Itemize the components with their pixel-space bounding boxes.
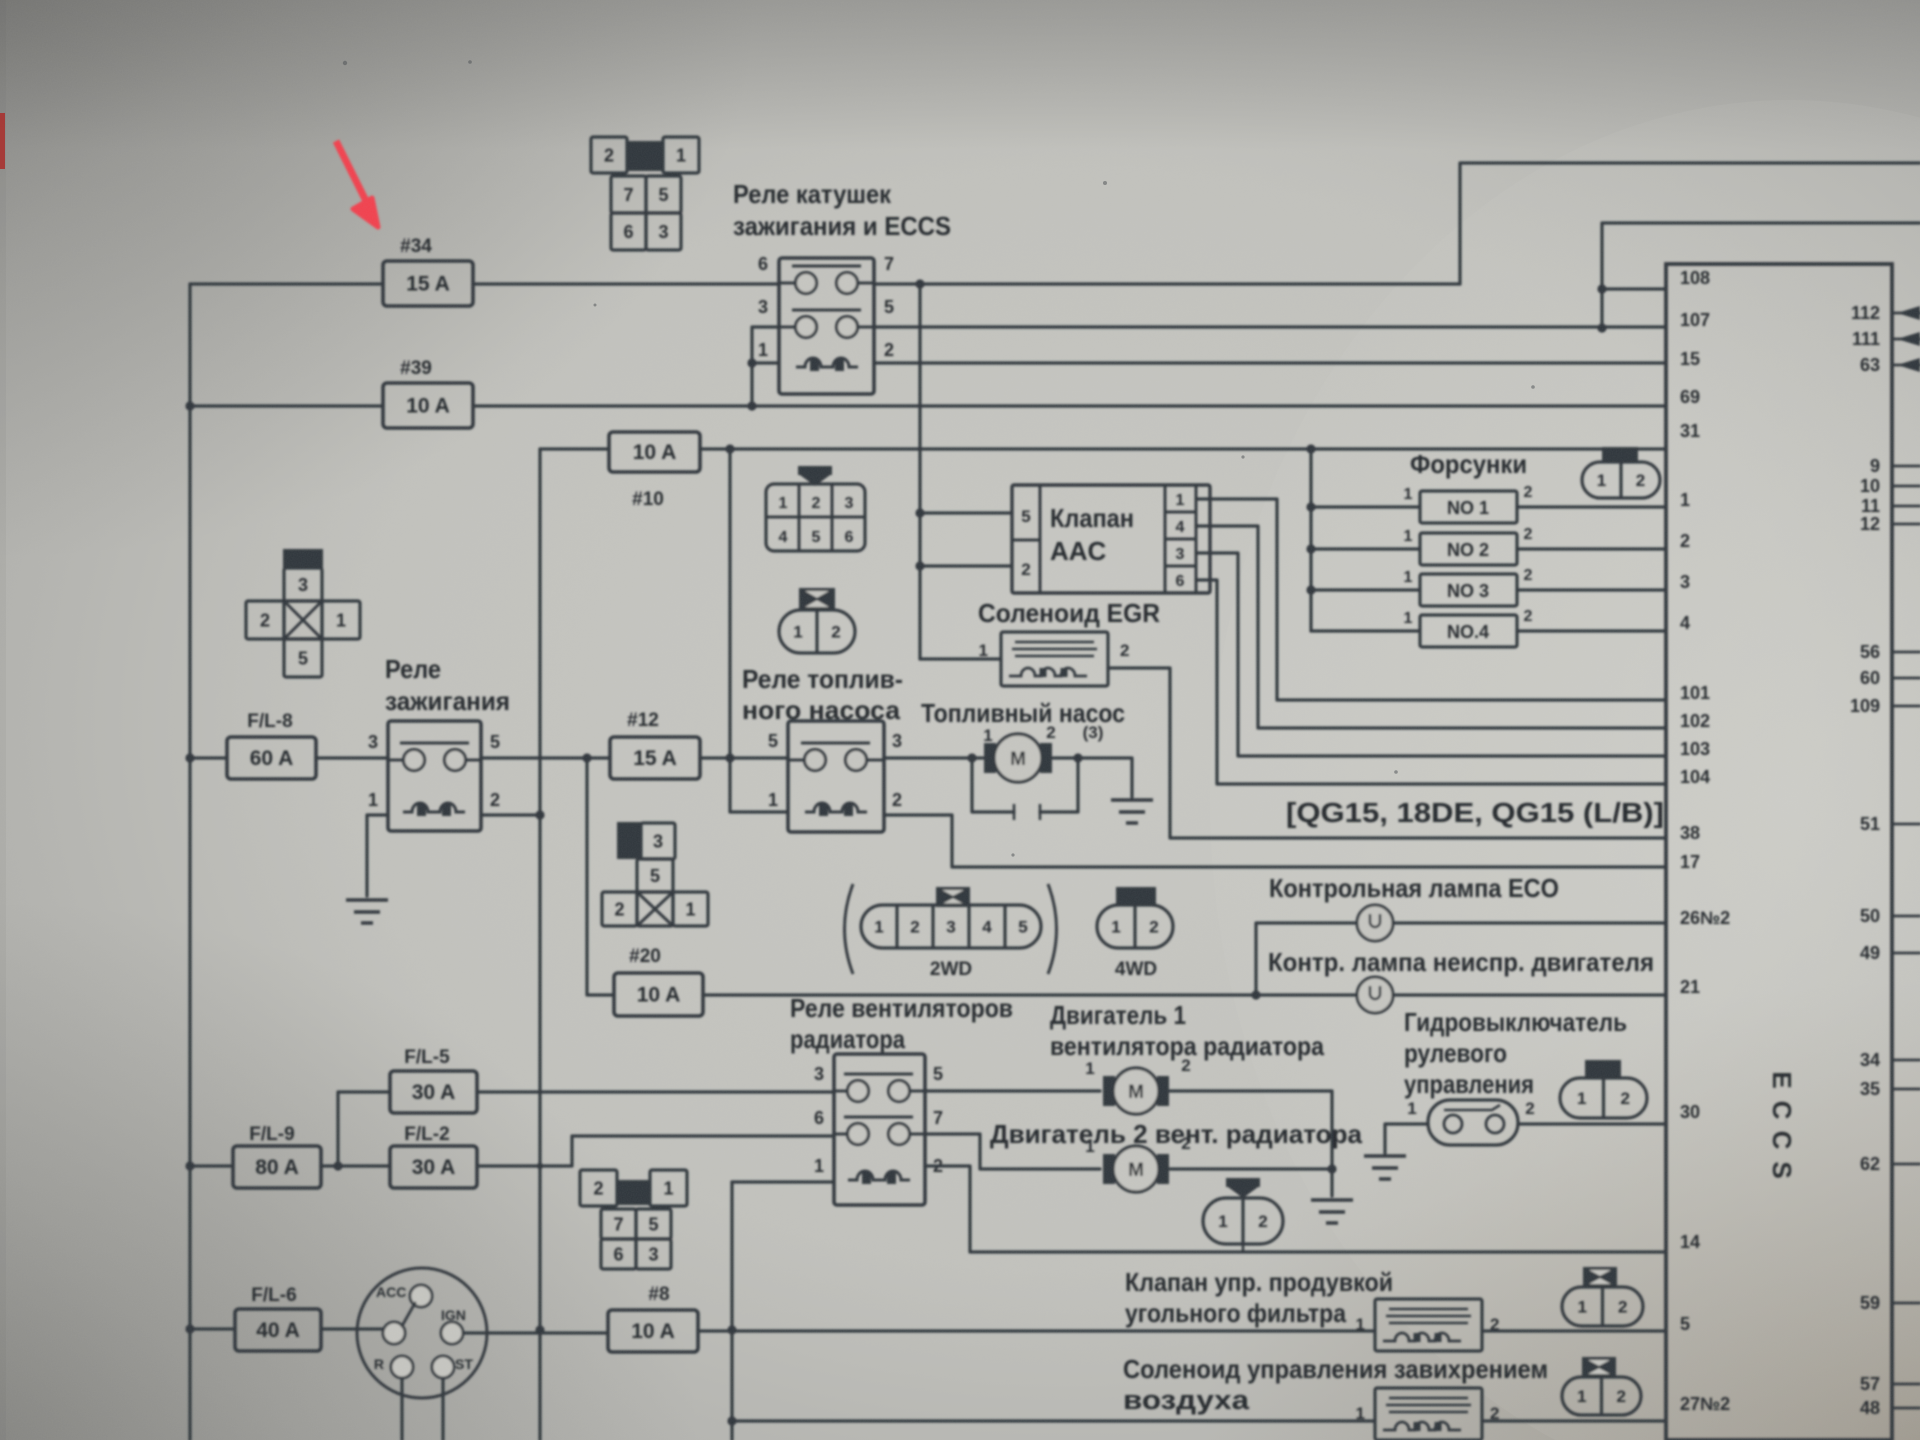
fuse #34 15A — [383, 261, 473, 306]
wire #39 fuse output to ECU pin 69 — [473, 404, 1666, 407]
wire AAC pin 3 to ECU pin 103 — [1196, 553, 1666, 756]
wire switched bus from ignition relay pin 2 — [538, 449, 541, 1440]
wire ECU pin 59 stub — [1892, 1302, 1920, 1305]
connector #8 2-1/7-5/6-3 — [580, 1170, 617, 1206]
wire #20 output through lamps to ECU pin 21 — [703, 993, 1357, 996]
node AAC pin5 junction — [915, 508, 924, 517]
connector injectors oval 1-2 — [1602, 447, 1638, 462]
fusible link F/L-6 40A — [235, 1309, 321, 1351]
wire #8 circuit vertical down to bottom — [730, 1182, 733, 1440]
fusible link F/L-5 30A — [390, 1071, 477, 1113]
wire NO1 output to ECU pin 1 — [1517, 505, 1666, 508]
connector oval 1-2 fan circuit — [1226, 1178, 1260, 1187]
wire branch up to F/L-5 — [338, 1092, 390, 1166]
node pump bypass junction left — [967, 753, 976, 762]
wire down to swirl valve feed — [732, 1419, 1375, 1422]
wire F/L-2 output to fan relay pin 6 — [477, 1136, 834, 1166]
wire #34 fuse output to ignition-coil relay pin 6 — [473, 282, 779, 285]
wire ST terminal down — [441, 1378, 444, 1440]
lamp check engine — [1357, 977, 1393, 1013]
red annotation arrow — [336, 141, 366, 201]
connector 6pin 1-2-3/4-5-6 — [798, 466, 832, 475]
wire ECU pin 48 stub — [1892, 1407, 1920, 1410]
wire ignition relay pin 1 to ground — [367, 815, 388, 896]
node junction #20 branch — [582, 753, 591, 762]
connector oval 1-2 near fuel pump relay — [799, 588, 835, 610]
wire to ECU pin 108 — [1602, 287, 1666, 290]
dust specks — [343, 60, 1535, 856]
node battery feed junction F/L-6 — [185, 1324, 194, 1333]
wire F/L-6 output to ignition switch — [321, 1327, 384, 1330]
wire motor 1 return to ground junction — [1170, 1091, 1332, 1196]
node crossing blob on switched bus — [537, 1163, 543, 1169]
connector oval 1-2 purge valve — [1583, 1267, 1617, 1287]
solenoid EGR — [1001, 632, 1108, 686]
wire ECU pin 34 stub — [1892, 1059, 1920, 1062]
wire NO4 output to ECU pin 4 — [1517, 629, 1666, 632]
ground fan motors — [1311, 1200, 1353, 1223]
injector NO 1 — [1420, 491, 1517, 523]
wire R terminal down — [400, 1378, 403, 1440]
pressure switch power steering — [1428, 1100, 1518, 1145]
wire ECU pin 35 stub — [1892, 1088, 1920, 1091]
wire F/L-6 input — [190, 1327, 235, 1330]
fusible link F/L-9 80A — [233, 1146, 321, 1188]
node junction at ECU pin 108 line — [1597, 284, 1606, 293]
connector 4WD 1-2 — [1116, 887, 1156, 905]
ground fuel pump — [1111, 800, 1153, 823]
wire AAC pin 4 to ECU pin 102 — [1196, 526, 1666, 728]
node junction injector feed — [1306, 444, 1315, 453]
wire left supply bus vertical — [188, 284, 191, 1440]
node AAC pin2 junction — [915, 561, 924, 570]
wire NO3 output to ECU pin 3 — [1517, 588, 1666, 591]
wire injector common feed vertical — [1309, 449, 1312, 631]
fuse #20 10A — [614, 973, 703, 1016]
wire ECU pin 49 stub — [1892, 952, 1920, 955]
node junction AAC supply branch — [915, 279, 924, 288]
wire step up to top right exit — [1460, 163, 1920, 284]
node junction at ECU pin 107 line — [1597, 323, 1606, 332]
wire swirl valve to ECU pin 27N2 — [1482, 1419, 1666, 1422]
wire to AAC pin 2 — [920, 564, 1012, 567]
wire pump output to ground — [1053, 758, 1132, 797]
connector cross 2-3-5-1 #20 — [617, 822, 641, 859]
injector NO 2 — [1420, 533, 1517, 565]
relay radiator fans — [834, 1054, 925, 1205]
arrowhead pin 63 — [1897, 358, 1920, 372]
node junction relay coil pins 1-3 — [747, 401, 756, 410]
connector above ignition-coil relay 2-1/7-5/6-3 — [591, 137, 627, 173]
wire to AAC pin 5 — [920, 511, 1012, 514]
solenoid air swirl control — [1375, 1388, 1482, 1440]
switch ignition (key switch) — [357, 1268, 487, 1398]
wire #10 fuse input — [540, 447, 609, 450]
wire feed NO1 — [1311, 505, 1420, 508]
node pin1 tie junction — [747, 358, 756, 367]
wire ECU pin 50 stub — [1892, 915, 1920, 918]
wire ignition switch IGN output to #8 fuse — [463, 1331, 608, 1334]
node junction swirl valve feed — [727, 1416, 736, 1425]
fusible link F/L-8 60A — [227, 737, 316, 779]
fuse #10 10A — [609, 432, 700, 472]
wire fan relay pin 7 to motor 2 — [925, 1134, 1100, 1169]
node junction #10 bus — [725, 444, 734, 453]
wire branch up to second top right exit — [1602, 223, 1920, 328]
wire #8 output to purge valve — [698, 1329, 1375, 1332]
wire ECU pin 10 stub — [1892, 485, 1920, 488]
node battery feed junction #39 — [185, 401, 194, 410]
node battery feed junction F/L-8 — [185, 753, 194, 762]
node lamp branch junction — [1251, 990, 1260, 999]
relay ignition coils and ECCS — [779, 258, 874, 394]
node fan grounds junction — [1327, 1164, 1336, 1173]
wire NO2 output to ECU pin 2 — [1517, 547, 1666, 550]
fuse #39 10A — [383, 383, 473, 428]
node injector NO2 junction — [1306, 544, 1315, 553]
node injector NO3 junction — [1306, 585, 1315, 594]
wire pressure switch left to ground — [1385, 1124, 1428, 1153]
wire #39 fuse input — [190, 404, 383, 407]
wire ignition relay pin 5 output — [481, 756, 610, 759]
node junction #12 line tap — [725, 753, 734, 762]
motor radiator fan 2 — [1103, 1154, 1115, 1184]
wire branch up to ECO lamp — [1256, 923, 1357, 995]
wire ECU pin 109 stub — [1892, 705, 1920, 708]
node pump bypass junction right — [1073, 753, 1082, 762]
ECU ECCS control unit box — [1666, 264, 1892, 1440]
wire ECU pin 62 stub — [1892, 1163, 1920, 1166]
connector oval 1-2 swirl valve — [1582, 1357, 1616, 1377]
valve AAC box — [1012, 485, 1210, 593]
connector cross 2-3-1-5 near ignition relay — [283, 549, 323, 568]
lamp ECO — [1357, 905, 1393, 941]
wire ECU pin 56 stub — [1892, 651, 1920, 654]
wire relay pin 2 output to ECU pin 15 — [874, 361, 1666, 364]
wire F/L-8 output to ignition relay pin 3 — [316, 756, 388, 759]
wire fan relay pin 2 to ECU pin 14 — [925, 1166, 1666, 1252]
wire ECO lamp to ECU pin 26N2 — [1393, 921, 1666, 924]
wire purge valve to ECU pin 5 — [1482, 1329, 1666, 1332]
injector NO.4 — [1420, 615, 1517, 647]
wire check engine lamp to ECU pin 21 — [1393, 993, 1666, 996]
wire F/L-8 input — [190, 756, 227, 759]
wire ECU pin 111 stub — [1892, 338, 1920, 341]
photo left edge shading — [0, 0, 6, 1440]
node injector NO1 junction — [1306, 502, 1315, 511]
node switched bus junction — [535, 810, 544, 819]
wire ECU pin 63 stub — [1892, 364, 1920, 367]
wire ECU pin 112 stub — [1892, 312, 1920, 315]
ground pressure switch — [1364, 1156, 1406, 1179]
wire #12 output to fuel pump relay pin 5 — [700, 756, 788, 759]
node switched bus junction at IGN line — [535, 1325, 544, 1334]
node F/L-5 branch junction — [333, 1161, 342, 1170]
arrowhead pin 111 — [1897, 332, 1920, 346]
wire feed NO3 — [1311, 588, 1420, 591]
wire AAC supply vertical from relay output — [918, 284, 921, 659]
wire F/L-9 output junction — [321, 1164, 390, 1167]
wire ignition relay pin 2 to switched bus — [481, 813, 540, 816]
wire fuel pump relay pin 2 to ECU pin 17 — [884, 815, 1666, 867]
solenoid purge control valve — [1375, 1299, 1482, 1351]
arrowhead pin 112 — [1897, 306, 1920, 320]
connector 2WD 1-5 with parentheses — [845, 884, 854, 974]
wire fan relay pin 1 feed from #8 circuit — [732, 1180, 834, 1183]
wire ECU pin 60 stub — [1892, 677, 1920, 680]
wire fan relay pin 5 to motor 1 — [925, 1089, 1100, 1092]
motor radiator fan 1 — [1103, 1076, 1115, 1106]
wire #10 fuse output to ECU pin 31 — [700, 447, 1666, 450]
node junction #8 output line — [727, 1325, 736, 1334]
wire ignition-coil relay pin 7 output — [874, 282, 1460, 285]
wire F/L-9 input — [190, 1164, 233, 1167]
wire feed NO4 — [1311, 629, 1420, 632]
wire ECU pin 51 stub — [1892, 823, 1920, 826]
wire relay pins 3-1 tie to #39 line — [752, 327, 779, 406]
wire feed NO2 — [1311, 547, 1420, 550]
wire #10 vertical bus down to fuel pump relay coil — [730, 449, 788, 812]
injector NO 3 — [1420, 574, 1517, 606]
wire relay pin 5 output to ECU pin 107 — [874, 325, 1666, 328]
ignition switch wiper arm — [402, 1303, 415, 1326]
wire motor 2 return — [1170, 1167, 1332, 1170]
wire to EGR pin 1 — [920, 657, 1001, 660]
wire #34 fuse input — [190, 282, 383, 285]
motor fuel pump — [984, 743, 996, 773]
wire fuel pump relay pin 3 to pump motor — [884, 756, 983, 759]
wire #12 line branch down to #20 fuse — [587, 758, 614, 995]
relay ignition — [388, 721, 481, 831]
fuse #12 15A — [610, 737, 700, 779]
node battery feed junction F/L-9 — [185, 1161, 194, 1170]
wire ECU pin 12 stub — [1892, 523, 1920, 526]
wire F/L-5 output to fan relay pin 3 — [477, 1090, 834, 1093]
AAC pin boxes 1,4,3,6 — [1164, 485, 1167, 593]
fusible link F/L-2 30A — [390, 1146, 477, 1188]
wire ECU pin 11 stub — [1892, 505, 1920, 508]
wire AAC pin 6 to ECU pin 104 — [1196, 580, 1666, 784]
wire ECU pin 57 stub — [1892, 1383, 1920, 1386]
wire ECU pin 9 stub — [1892, 465, 1920, 468]
wire EGR pin 2 to ECU pin 38 — [1108, 668, 1666, 838]
wire pump bypass loop with connector gap — [972, 758, 1078, 812]
fuse #8 10A — [608, 1310, 698, 1352]
ground ignition relay coil — [346, 900, 388, 923]
connector oval 1-2 pressure switch — [1585, 1060, 1621, 1078]
wire AAC pin 1 to ECU pin 101 — [1196, 499, 1666, 700]
wire pressure switch to ECU pin 30 — [1518, 1122, 1666, 1125]
relay fuel pump — [788, 721, 884, 832]
